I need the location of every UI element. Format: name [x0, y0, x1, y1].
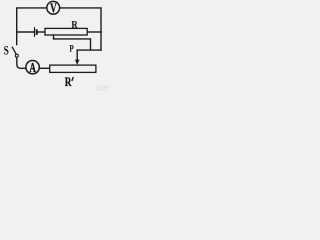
resistor R box: [45, 28, 87, 35]
wire: slider feed horizontal: [77, 49, 101, 51]
wire: tap under R box to slider: [54, 35, 91, 50]
svg-text:om: om: [97, 83, 110, 91]
switch S blade: [12, 47, 16, 54]
label R' prime mark: [72, 77, 73, 81]
battery cell short thick plate: [36, 29, 38, 35]
wire: from switch to ammeter with rounded corner: [17, 57, 26, 68]
voltmeter U-V circle: [47, 1, 60, 14]
slider arrow head P: [75, 60, 80, 65]
switch S pivot circle: [15, 54, 18, 57]
wire: slider vertical: [76, 50, 78, 60]
wire: middle row right of R: [87, 31, 101, 33]
wire: top wire left segment: [17, 8, 47, 45]
svg-text:V: V: [50, 1, 57, 16]
svg-text:S: S: [4, 44, 9, 58]
svg-text:A: A: [29, 60, 36, 75]
battery cell long plate: [34, 27, 36, 37]
background: [0, 0, 109, 91]
wire: middle row left: [17, 31, 34, 33]
svg-text:R: R: [71, 19, 78, 31]
rheostat R' box: [50, 65, 96, 72]
wire: top wire right segment: [60, 8, 101, 50]
svg-text:P: P: [69, 44, 73, 54]
ammeter U-A circle: [26, 60, 39, 73]
wire: middle row between cell and R: [38, 31, 45, 33]
ammeter right stub wire: [39, 67, 49, 69]
svg-text:R: R: [65, 76, 72, 89]
